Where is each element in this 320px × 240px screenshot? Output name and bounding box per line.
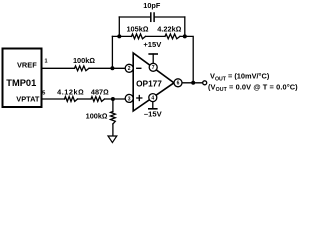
supply -15V bar — [152, 102, 154, 109]
svg-text:TMP01: TMP01 — [6, 78, 36, 88]
svg-text:VPTAT: VPTAT — [16, 95, 40, 104]
node dot D — [191, 81, 195, 85]
pin circle 2 — [125, 64, 133, 72]
svg-text:–15V: –15V — [144, 110, 163, 119]
ground — [108, 136, 117, 143]
svg-text:100kΩ: 100kΩ — [73, 56, 95, 65]
plus sign — [137, 97, 142, 99]
node dot A — [110, 66, 114, 70]
wire resistor row — [112, 35, 131, 37]
svg-text:2: 2 — [128, 66, 131, 72]
resistor R5 4.22k — [165, 34, 180, 39]
pin circle 7 — [149, 63, 157, 71]
wire pin5 to resistor — [43, 98, 65, 100]
svg-text:OP177: OP177 — [136, 78, 162, 88]
svg-text:3: 3 — [128, 96, 131, 102]
node dot B — [117, 34, 121, 38]
svg-text:5: 5 — [42, 90, 45, 96]
resistor R3 487 — [91, 97, 105, 102]
svg-text:105kΩ: 105kΩ — [126, 25, 148, 34]
wire pin1 to resistor — [43, 67, 75, 69]
capacitor C1 10pF — [150, 13, 152, 21]
node dot E — [111, 97, 115, 101]
wire between R4 R5 — [146, 35, 166, 37]
op-amp U1 triangle — [133, 53, 174, 111]
TMP01 box U2 — [3, 49, 42, 108]
pin circle 6 — [174, 79, 182, 87]
wire to gnd resistor — [112, 99, 114, 112]
supply +15V bar — [152, 54, 154, 63]
svg-text:4.12kΩ: 4.12kΩ — [57, 87, 84, 96]
svg-text:6: 6 — [177, 81, 180, 87]
wire cap left vertical — [118, 17, 120, 36]
svg-text:4.22kΩ: 4.22kΩ — [157, 25, 181, 34]
svg-text:487Ω: 487Ω — [91, 87, 109, 96]
resistor R2 4.12k — [65, 97, 78, 102]
output terminal — [203, 81, 207, 85]
svg-text:10pF: 10pF — [143, 1, 161, 10]
minus sign — [137, 67, 141, 69]
svg-text:+15V: +15V — [143, 40, 162, 49]
wire row right jog — [180, 36, 193, 83]
svg-text:100kΩ: 100kΩ — [86, 111, 108, 120]
resistor R6 100k vertical — [111, 112, 116, 125]
svg-text:7: 7 — [152, 65, 155, 71]
wire cap right vertical — [184, 17, 186, 36]
wire cap top right — [155, 16, 185, 18]
pin circle 3 — [125, 94, 133, 102]
wire resistor to opamp pin2 — [89, 67, 126, 69]
pin circle 4 — [149, 94, 157, 102]
wire output — [182, 82, 203, 84]
resistor R4 105k — [132, 34, 146, 39]
svg-text:1: 1 — [45, 58, 48, 64]
resistor R1 100k — [75, 66, 90, 71]
svg-text:VREF: VREF — [17, 61, 37, 70]
wire between R2 R3 — [78, 98, 92, 100]
wire resistor to ground — [112, 124, 114, 136]
wire cap top left — [119, 16, 150, 18]
svg-text:4: 4 — [151, 96, 154, 102]
wire feedback left vertical — [111, 36, 113, 68]
wire R3 to opamp pin3 — [105, 98, 126, 100]
node dot C — [183, 34, 187, 38]
